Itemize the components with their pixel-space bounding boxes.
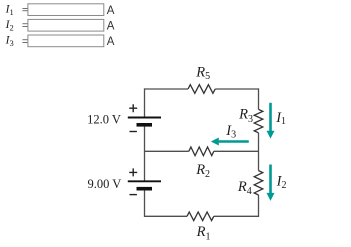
- resistor R3: [254, 109, 263, 132]
- battery V2 short plate: [137, 187, 153, 191]
- wire right vertical lower: [258, 195, 260, 217]
- svg-text:R5: R5: [195, 65, 210, 82]
- svg-text:I3=: I3=: [5, 34, 29, 49]
- svg-text:R2: R2: [195, 162, 210, 180]
- svg-text:I3: I3: [225, 123, 236, 141]
- current arrow I3: [219, 140, 249, 143]
- svg-text:I2=: I2=: [5, 18, 29, 33]
- battery V1 plus sign: [129, 104, 137, 112]
- wire middle left horizontal: [145, 150, 189, 152]
- battery V1 long plate: [128, 117, 161, 119]
- svg-text:A: A: [107, 36, 115, 48]
- wire right vertical middle: [258, 133, 260, 171]
- svg-text:A: A: [107, 21, 115, 33]
- battery V2 minus sign: [130, 194, 137, 196]
- svg-text:I1=: I1=: [5, 2, 29, 17]
- resistor R1: [187, 212, 214, 221]
- battery V2 long plate: [128, 180, 161, 182]
- wire left vertical upper: [144, 88, 146, 116]
- svg-text:R3: R3: [238, 107, 253, 125]
- svg-text:R4: R4: [237, 179, 252, 197]
- svg-text:R1: R1: [196, 224, 211, 242]
- svg-text:9.00 V: 9.00 V: [87, 177, 121, 191]
- wire top left horizontal: [145, 88, 189, 90]
- current arrow I2: [269, 165, 272, 194]
- resistor R5: [188, 85, 215, 94]
- wire bottom left horizontal: [145, 215, 188, 217]
- svg-text:12.0 V: 12.0 V: [87, 113, 121, 127]
- battery V2 plus sign: [129, 168, 137, 176]
- wire left vertical middle: [144, 126, 146, 180]
- current arrow I1: [269, 103, 272, 132]
- battery V1 minus sign: [130, 131, 137, 133]
- resistor R2: [189, 147, 214, 156]
- resistor R4: [254, 171, 263, 195]
- wire left vertical lower: [144, 190, 146, 217]
- answer field I2 input box: [28, 19, 104, 31]
- wire right vertical upper: [258, 88, 260, 109]
- wire bottom right horizontal: [214, 215, 259, 217]
- battery V1 short plate: [137, 123, 153, 127]
- svg-text:I1: I1: [275, 110, 286, 127]
- svg-text:A: A: [107, 5, 115, 17]
- wire middle right horizontal: [214, 150, 259, 152]
- wire top right horizontal: [215, 88, 258, 90]
- answer field I3 input box: [28, 35, 104, 47]
- answer field I1 input box: [28, 4, 104, 16]
- svg-text:I2: I2: [276, 174, 287, 191]
